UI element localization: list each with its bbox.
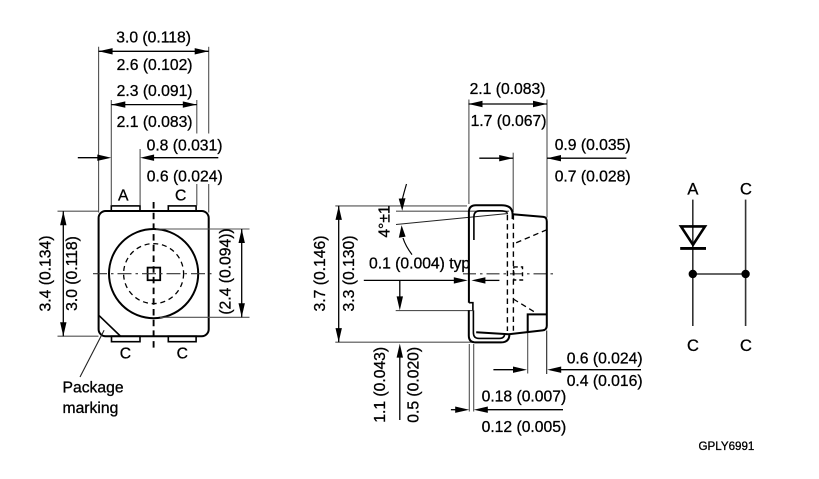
svg-text:3.3 (0.130): 3.3 (0.130) <box>341 236 358 312</box>
4 deg lower leader arrow <box>399 225 412 254</box>
package body outline <box>99 211 209 336</box>
extension step left <box>396 310 473 312</box>
4 deg upper leader arrow <box>399 184 407 211</box>
extension line body bottom left <box>58 335 99 337</box>
right lead notch <box>528 314 547 331</box>
dimension 2.1/1.7 line <box>469 101 548 107</box>
svg-text:1.1 (0.043): 1.1 (0.043) <box>372 347 389 423</box>
dimension 3.4/3.0 vertical line <box>60 211 66 336</box>
dimension 0.8/0.6 line <box>78 155 219 161</box>
wire cathode vertical <box>745 200 747 326</box>
leader line package marking <box>80 330 104 377</box>
dimension 0.6/0.4 line <box>493 367 641 373</box>
wire horizontal connect <box>693 273 746 275</box>
svg-text:0.9 (0.035): 0.9 (0.035) <box>555 137 631 154</box>
svg-text:2.6 (0.102): 2.6 (0.102) <box>117 57 193 74</box>
svg-text:0.12 (0.005): 0.12 (0.005) <box>482 419 567 436</box>
extension body right down <box>546 331 548 375</box>
vertical centerline <box>153 202 155 349</box>
dimension 2.4 vertical line <box>239 229 245 317</box>
side view centerline <box>463 273 557 275</box>
svg-text:0.18 (0.007): 0.18 (0.007) <box>482 388 567 405</box>
hidden dashed vertical left <box>506 215 508 331</box>
top J-lead outer <box>469 205 513 303</box>
hidden dashed reflector upper <box>514 230 547 244</box>
svg-text:GPLY6991: GPLY6991 <box>699 440 755 453</box>
svg-text:Package: Package <box>63 380 124 397</box>
svg-text:0.1 (0.004) typ: 0.1 (0.004) typ <box>369 255 470 272</box>
dimension 1.1/0.5 vertical line <box>397 281 403 420</box>
svg-text:C: C <box>175 188 186 205</box>
svg-text:A: A <box>118 188 129 205</box>
bottom J-lead inner <box>473 310 504 338</box>
hidden dashed vertical right <box>512 214 514 331</box>
extension lead outer face down <box>468 344 470 412</box>
svg-text:0.7 (0.028): 0.7 (0.028) <box>555 169 631 186</box>
svg-text:3.7 (0.146): 3.7 (0.146) <box>312 236 329 312</box>
diode D1 triangle <box>681 226 705 244</box>
wire anode vertical <box>692 200 694 326</box>
dimension 3.0/2.6 width line <box>99 48 209 54</box>
extension lead left up <box>468 100 470 205</box>
svg-text:3.0 (0.118): 3.0 (0.118) <box>64 236 81 311</box>
hidden chip dashed rect <box>514 267 523 280</box>
svg-text:C: C <box>740 181 752 199</box>
svg-text:2.3 (0.091): 2.3 (0.091) <box>117 83 193 100</box>
svg-text:0.6 (0.024): 0.6 (0.024) <box>567 351 643 368</box>
extension notch down <box>527 332 529 374</box>
junction node right <box>741 270 749 278</box>
extension lead top left <box>335 205 467 207</box>
extension lead right hidden <box>512 153 514 212</box>
extension line package left edge <box>98 47 100 213</box>
extension line pin A right <box>139 149 141 206</box>
svg-text:(2.4 (0.094)): (2.4 (0.094)) <box>218 228 235 314</box>
svg-text:C: C <box>687 337 699 355</box>
horizontal centerline <box>93 273 214 275</box>
pin C bottom-right <box>168 336 196 342</box>
svg-text:C: C <box>120 346 131 363</box>
dimension 0.18/0.12 line <box>451 407 563 413</box>
body left step <box>469 303 473 311</box>
svg-text:4°±1: 4°±1 <box>377 205 394 237</box>
pin A top-left <box>111 206 140 211</box>
svg-text:3.4 (0.134): 3.4 (0.134) <box>37 236 54 312</box>
extension lead inner face down <box>473 344 475 412</box>
pin C top-right <box>168 206 196 211</box>
lens inner dashed circle <box>124 244 184 304</box>
chip square <box>148 268 161 281</box>
svg-text:marking: marking <box>63 400 119 417</box>
extension line lens top right <box>156 228 250 230</box>
dimension 0.9/0.7 line <box>479 155 626 161</box>
svg-text:2.1 (0.083): 2.1 (0.083) <box>117 114 193 131</box>
junction node left <box>689 270 697 278</box>
top J-lead inner <box>474 211 508 240</box>
extension line pin A left <box>110 100 112 206</box>
svg-text:1.7 (0.067): 1.7 (0.067) <box>471 113 547 130</box>
extension lead bottom left <box>335 341 480 343</box>
body top and right outline <box>476 214 547 334</box>
svg-text:0.6 (0.024): 0.6 (0.024) <box>147 169 223 186</box>
4 deg reference line B <box>396 210 509 212</box>
lens outer circle <box>109 229 198 318</box>
hidden dashed reflector lower <box>513 299 535 312</box>
extension line package right edge <box>208 47 210 134</box>
svg-text:0.4 (0.016): 0.4 (0.016) <box>567 373 643 390</box>
extension line lens bottom right <box>160 316 250 318</box>
bottom J-lead outer <box>469 310 510 342</box>
dimension 2.3/2.1 line <box>111 101 197 107</box>
extension line body top left <box>58 210 99 212</box>
dimension 0.1 typ arrows <box>364 277 500 283</box>
chamfer index corner line <box>99 316 120 336</box>
svg-text:C: C <box>740 337 752 355</box>
svg-text:C: C <box>177 346 188 363</box>
4 deg slope line C <box>396 214 508 225</box>
svg-text:0.8 (0.031): 0.8 (0.031) <box>147 137 223 154</box>
pin C bottom-left <box>112 336 141 342</box>
svg-text:0.5 (0.020): 0.5 (0.020) <box>405 347 422 423</box>
dimension 3.7/3.3 vertical line <box>336 206 342 342</box>
extension line pin C right <box>196 100 198 134</box>
diode D1 cathode bar <box>680 247 706 250</box>
svg-text:2.1 (0.083): 2.1 (0.083) <box>470 81 546 98</box>
svg-text:A: A <box>687 181 698 199</box>
extension body right up <box>546 100 548 218</box>
svg-text:3.0 (0.118): 3.0 (0.118) <box>116 30 191 47</box>
